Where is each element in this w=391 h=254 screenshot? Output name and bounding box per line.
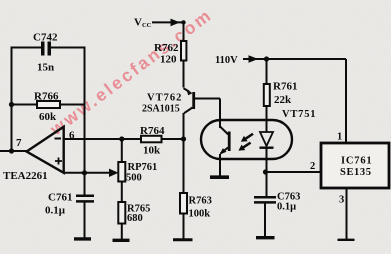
resistor R763 xyxy=(180,193,187,214)
svg-text:R764: R764 xyxy=(140,125,165,137)
resistor R766 xyxy=(37,101,60,108)
wire: opto emitter to ground xyxy=(219,154,221,176)
svg-text:2: 2 xyxy=(310,161,315,172)
svg-text:C761: C761 xyxy=(48,192,72,204)
wire: Vcc feed xyxy=(152,22,184,87)
svg-text:22k: 22k xyxy=(274,94,292,106)
node: plus input junction dot xyxy=(82,170,87,175)
arrow: Vcc feed arrowhead xyxy=(171,19,181,27)
ground (C763) xyxy=(256,236,275,239)
svg-text:15n: 15n xyxy=(37,62,54,74)
node: collector junction dot xyxy=(181,136,186,141)
capacitor C761 xyxy=(76,196,94,202)
svg-text:IC761: IC761 xyxy=(341,156,372,167)
node: pin6 branch dot xyxy=(119,136,124,141)
svg-text:R762: R762 xyxy=(154,42,179,54)
svg-text:3: 3 xyxy=(339,195,344,206)
svg-text:1: 1 xyxy=(337,132,342,143)
svg-text:680: 680 xyxy=(127,213,143,224)
wire: VT762 base to optocoupler xyxy=(194,99,220,129)
svg-text:SE135: SE135 xyxy=(340,167,372,178)
svg-text:7: 7 xyxy=(16,137,22,149)
wire: node to IC pin 2 xyxy=(266,171,322,173)
wire: feedback loop top xyxy=(12,47,85,49)
node: LED cathode C763 dot xyxy=(263,169,268,174)
arrow: light coupling arrows xyxy=(238,133,253,151)
ground (R763) xyxy=(173,238,193,241)
IC IC761 SE135 xyxy=(321,143,389,188)
resistor R761 xyxy=(264,84,270,106)
svg-text:110V: 110V xyxy=(215,55,238,66)
wire: IC pin 3 to ground xyxy=(346,188,348,240)
svg-text:100k: 100k xyxy=(189,209,211,220)
svg-text:VT751: VT751 xyxy=(282,109,316,120)
wire: VT762 collector rail down to R763 and ground xyxy=(183,113,185,239)
optocoupler VT751 body xyxy=(201,120,292,159)
wire: 110V feed to right rail xyxy=(243,59,346,143)
wire: plus input to RP761 wiper xyxy=(64,172,112,174)
opto LED xyxy=(260,132,274,148)
svg-text:VT762: VT762 xyxy=(147,93,182,104)
wire: feedback right rail xyxy=(84,47,86,240)
node: Vcc corner dot xyxy=(181,20,185,24)
svg-text:R761: R761 xyxy=(273,81,297,93)
wire: left rail xyxy=(11,47,13,152)
ground (opto emitter) xyxy=(210,175,229,179)
svg-text:500: 500 xyxy=(126,173,142,184)
ground (IC pin3) xyxy=(338,239,355,241)
svg-text:0.1μ: 0.1μ xyxy=(277,202,296,213)
arrow: RP761 wiper arrowhead xyxy=(109,169,119,177)
wire: op-amp output to left edge xyxy=(0,150,28,152)
node: output junction dot xyxy=(9,148,14,153)
wire: pin6 to R764 to collector node xyxy=(64,138,184,140)
wire: R766 horizontal xyxy=(12,104,85,106)
capacitor C763 xyxy=(254,197,276,202)
resistor R762 xyxy=(181,41,186,61)
wire: RP761 branch vertical xyxy=(121,139,123,239)
node: 110V R761 dot xyxy=(264,56,269,61)
opto phototransistor xyxy=(220,127,231,155)
resistor R764 xyxy=(141,136,162,143)
svg-text:TEA2261: TEA2261 xyxy=(3,170,48,182)
wire: LED cathode down to node xyxy=(266,149,268,197)
svg-text:10k: 10k xyxy=(143,145,161,157)
ground (R765) xyxy=(113,239,130,242)
transistor VT762 2SA1015 xyxy=(184,88,196,113)
svg-text:2SA1015: 2SA1015 xyxy=(142,104,180,115)
svg-text:RP761: RP761 xyxy=(128,162,158,173)
wire: R761 branch to LED anode xyxy=(266,59,268,132)
svg-text:0.1μ: 0.1μ xyxy=(45,205,66,217)
svg-text:6: 6 xyxy=(69,130,75,142)
wire: C763 to ground xyxy=(264,204,266,239)
op-amp TEA2261 xyxy=(27,127,64,173)
capacitor C742 xyxy=(41,42,51,56)
svg-text:R763: R763 xyxy=(189,196,212,207)
svg-text:R766: R766 xyxy=(34,91,59,103)
svg-text:120: 120 xyxy=(160,54,177,66)
resistor R765 xyxy=(118,202,125,224)
svg-text:C742: C742 xyxy=(33,32,58,44)
arrow: 110V feed arrowhead xyxy=(249,55,259,63)
resistor RP761 xyxy=(118,162,125,182)
svg-text:60k: 60k xyxy=(39,111,57,123)
node: R766 left junction dot xyxy=(9,102,14,107)
ground (C761) xyxy=(74,237,91,240)
